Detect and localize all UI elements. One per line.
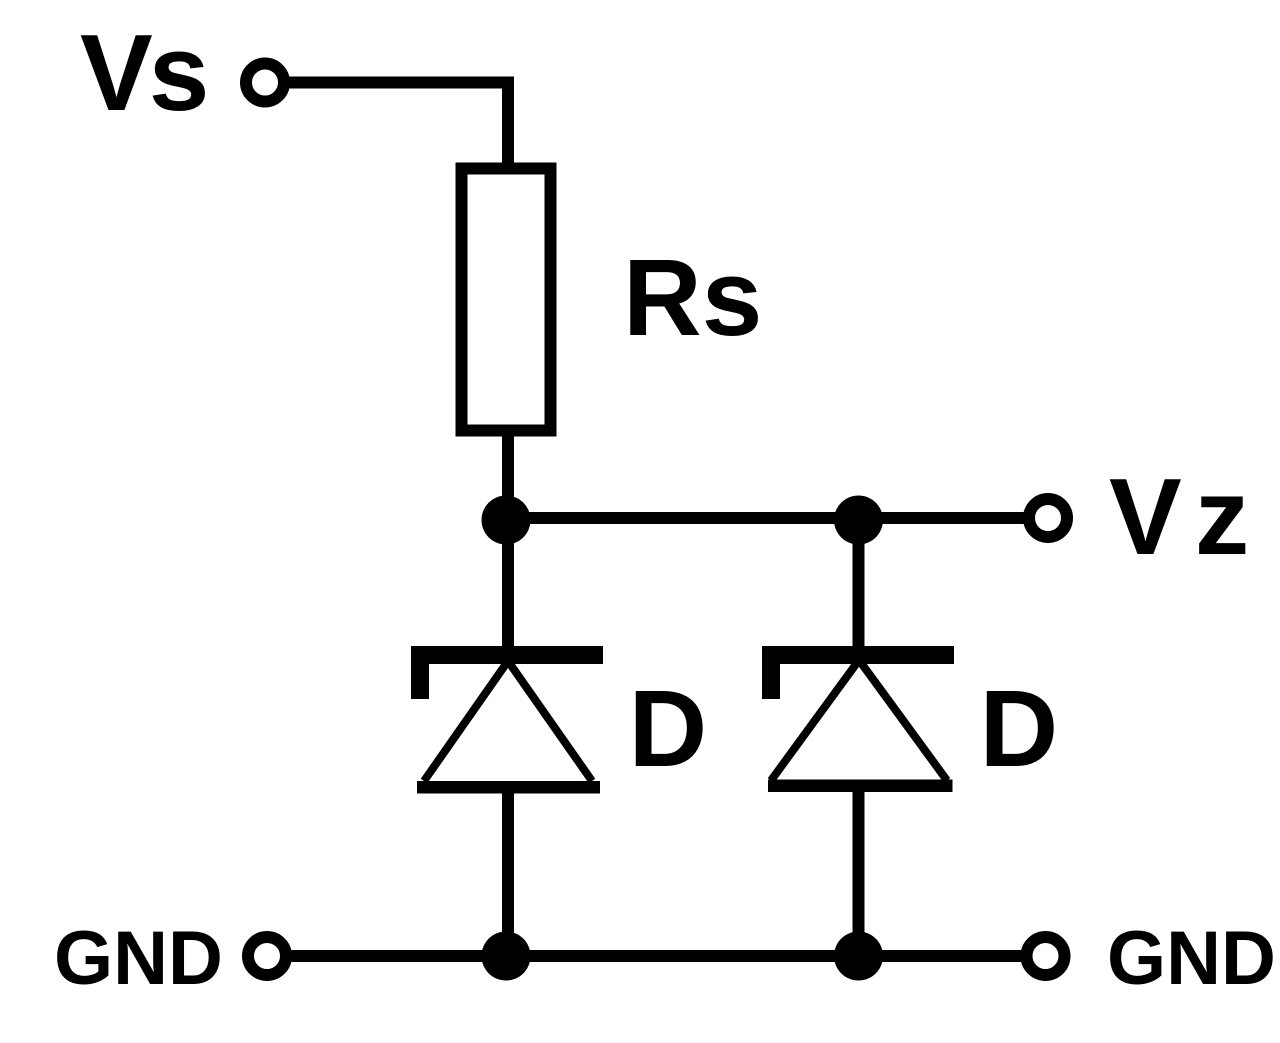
svg-text:Vs: Vs [80,12,206,134]
svg-text:D: D [980,668,1059,790]
svg-text:Rs: Rs [623,237,762,359]
svg-text:D: D [629,668,708,790]
svg-text:GND: GND [1107,916,1276,1001]
svg-text:GND: GND [54,916,223,1001]
svg-text:Vz: Vz [1109,456,1262,578]
